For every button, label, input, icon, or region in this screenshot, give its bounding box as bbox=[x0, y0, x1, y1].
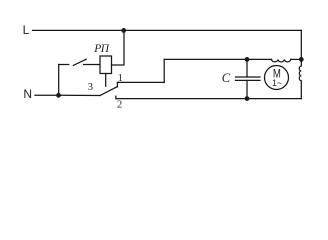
wire terminal 1 horizontal bbox=[117, 81, 164, 83]
main winding (vertical inductor) bbox=[299, 59, 301, 98]
wire vertical from node A up to contact bbox=[58, 65, 60, 96]
junction dot capacitor bottom bbox=[245, 96, 250, 101]
junction dot capacitor top bbox=[245, 57, 250, 62]
svg-text:L: L bbox=[23, 23, 30, 37]
junction dot node A on N bbox=[56, 93, 61, 98]
contact (NO switch) right lead bbox=[84, 64, 100, 66]
svg-text:C: C bbox=[222, 71, 231, 85]
terminal 2 nub bbox=[115, 96, 117, 98]
auxiliary winding (horizontal inductor) bbox=[272, 59, 291, 62]
svg-text:2: 2 bbox=[117, 99, 122, 110]
capacitor bottom lead bbox=[246, 80, 248, 98]
svg-text:РП: РП bbox=[93, 43, 110, 55]
svg-text:3: 3 bbox=[88, 82, 93, 93]
capacitor top lead bbox=[246, 59, 248, 77]
contact (NO switch) blade bbox=[73, 59, 86, 65]
wire right vertical from L down to winding junction bbox=[300, 30, 302, 59]
wire terminal 2 / bottom run bbox=[116, 98, 301, 100]
mechanical link from coil to changeover blade bbox=[105, 74, 107, 87]
terminal 1 nub bbox=[116, 82, 118, 87]
changeover blade bbox=[100, 87, 117, 96]
wire N horizontal bbox=[35, 94, 59, 96]
wire step vertical up bbox=[163, 59, 165, 82]
changeover common lead (terminal 3) bbox=[59, 94, 101, 96]
junction dot on L line above coil bbox=[121, 28, 126, 33]
junction dot right winding node bbox=[299, 57, 304, 62]
wire winding to right junction bbox=[291, 58, 302, 60]
wire L top horizontal bbox=[33, 29, 302, 31]
capacitor bottom plate bbox=[236, 79, 261, 81]
svg-text:N: N bbox=[23, 87, 32, 101]
capacitor top plate bbox=[236, 76, 261, 78]
wire coil right terminal to L junction bbox=[112, 30, 125, 65]
contact (NO switch) left lead bbox=[59, 64, 69, 66]
wire top run to capacitor bbox=[164, 58, 271, 60]
svg-text:1~: 1~ bbox=[272, 78, 282, 88]
motor M1~ circle bbox=[265, 66, 289, 90]
relay coil RP rectangle bbox=[100, 56, 112, 74]
